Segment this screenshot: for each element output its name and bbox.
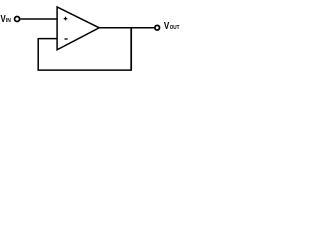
input terminal VIN — [15, 17, 20, 22]
op-amp + input marking — [64, 17, 68, 21]
op-amp U1 — [57, 7, 99, 50]
svg-text:V: V — [164, 21, 170, 32]
wire: feedback from - input, left then down — [38, 39, 57, 70]
svg-text:OUT: OUT — [170, 25, 180, 31]
output terminal VOUT — [155, 25, 160, 30]
op-amp - input marking — [65, 38, 68, 40]
wire: VIN terminal to op-amp + input — [20, 18, 57, 20]
wire: feedback bottom rail — [38, 69, 132, 71]
wire: op-amp output to VOUT terminal — [99, 27, 154, 29]
wire: feedback rises to output junction — [130, 28, 132, 70]
svg-text:IN: IN — [6, 18, 11, 24]
